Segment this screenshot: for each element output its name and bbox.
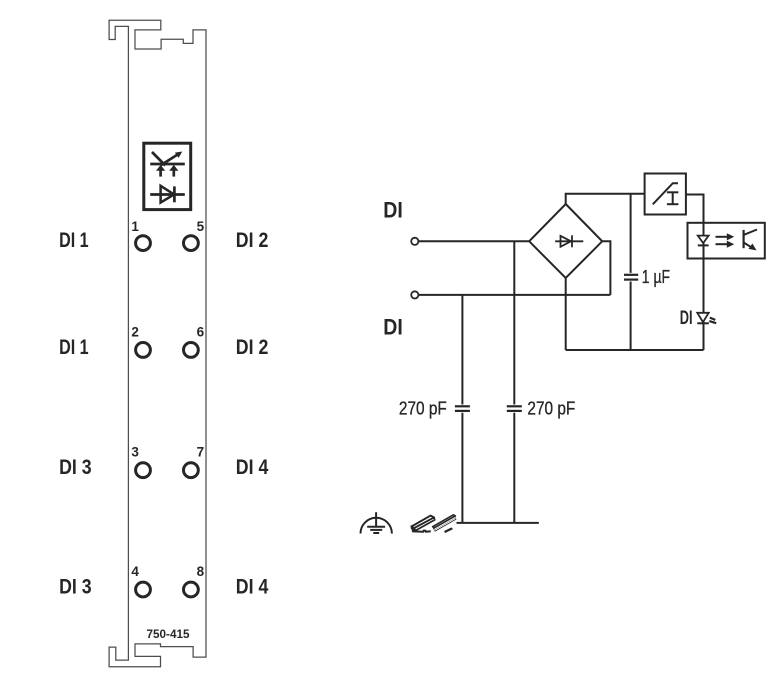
optocoupler box [688, 223, 765, 259]
wire bridge top to limiter [566, 194, 645, 204]
svg-text:DI 1: DI 1 [59, 229, 89, 252]
phototransistor [744, 230, 757, 251]
svg-text:270 pF: 270 pF [527, 399, 575, 419]
svg-text:DI 4: DI 4 [236, 575, 269, 598]
contact 1 [131, 219, 150, 251]
svg-text:DI: DI [383, 198, 403, 223]
svg-text:DI 2: DI 2 [236, 336, 268, 359]
capacitor 270 pF left branch wire [461, 295, 463, 405]
svg-text:DI 4: DI 4 [236, 456, 269, 479]
svg-text:4: 4 [131, 564, 139, 579]
bridge diode symbol [555, 235, 583, 247]
icon AC-input symbol bar [150, 163, 185, 166]
capacitor 270 pF left [455, 406, 470, 523]
icon diode [150, 186, 185, 203]
svg-text:3: 3 [131, 445, 139, 460]
current limiter box [645, 174, 686, 215]
wire bottom-to-bridge-right riser [602, 241, 610, 295]
svg-text:7: 7 [197, 445, 205, 460]
svg-text:8: 8 [197, 564, 205, 579]
svg-text:1 µF: 1 µF [642, 267, 670, 287]
svg-text:DI 3: DI 3 [59, 456, 92, 479]
module body outline 750-415 [109, 20, 206, 666]
optocoupler LED [698, 236, 709, 246]
icon diagonal stroke [152, 152, 165, 166]
terminal DI bottom [411, 291, 418, 298]
terminal DI top [411, 238, 418, 245]
contact 4 [131, 564, 150, 597]
status LED [697, 313, 709, 324]
module icon box [144, 143, 191, 209]
svg-text:DI: DI [383, 315, 403, 340]
wire optocoupler to rail [703, 259, 705, 351]
svg-text:270 pF: 270 pF [399, 399, 447, 419]
wire DI top to bridge [419, 240, 530, 242]
capacitor 1 uF [624, 194, 638, 350]
wire bridge bottom to rail [565, 278, 567, 350]
wire limiter to optocoupler [686, 195, 704, 223]
status LED emission marks [709, 318, 716, 324]
wire DI bottom [419, 294, 611, 296]
capacitor 270 pF right branch wire [513, 241, 515, 404]
DIN rail icon [411, 515, 456, 533]
svg-text:1: 1 [131, 219, 139, 234]
contact 3 [131, 445, 150, 478]
svg-text:6: 6 [197, 324, 205, 339]
svg-text:750-415: 750-415 [147, 629, 191, 641]
contact 5 [184, 219, 205, 251]
icon up-arrow 1 [156, 165, 165, 177]
svg-text:5: 5 [197, 219, 205, 234]
svg-text:DI: DI [680, 308, 693, 329]
contact 6 [184, 324, 205, 357]
earth symbol [361, 512, 392, 533]
svg-text:DI 1: DI 1 [59, 336, 89, 359]
wire ground rail [457, 522, 539, 524]
optocoupler light arrow 2 [716, 241, 735, 248]
bridge rectifier [529, 204, 602, 278]
contact 2 [131, 324, 150, 357]
icon diagonal arrow [161, 152, 183, 166]
optocoupler LED wire [703, 223, 705, 259]
contact 8 [184, 564, 205, 597]
capacitor 270 pF right [507, 406, 522, 523]
limiter I-curve symbol [653, 183, 679, 204]
contact 7 [184, 445, 205, 478]
wire bottom rail [566, 349, 704, 351]
optocoupler light arrow 1 [716, 233, 735, 240]
svg-text:2: 2 [131, 324, 139, 339]
svg-text:DI 3: DI 3 [59, 575, 92, 598]
svg-text:DI 2: DI 2 [236, 229, 268, 252]
icon up-arrow 2 [169, 165, 178, 177]
